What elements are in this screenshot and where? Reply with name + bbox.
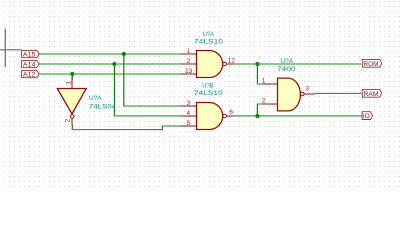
svg-text:1: 1 xyxy=(186,48,190,55)
wire A14 xyxy=(39,63,181,65)
output bubble xyxy=(301,92,305,96)
junction on A14 xyxy=(112,62,116,66)
pin 1 (input, top) xyxy=(71,77,73,89)
svg-text:2: 2 xyxy=(186,58,190,65)
svg-text:5: 5 xyxy=(186,120,190,127)
wire NAND2 output to IO xyxy=(234,115,362,117)
svg-text:13: 13 xyxy=(185,68,193,75)
junction on A15 xyxy=(122,52,126,56)
pin 1 xyxy=(263,83,278,85)
svg-text:2: 2 xyxy=(64,118,71,122)
global label A14 xyxy=(22,60,40,67)
svg-text:A12: A12 xyxy=(23,72,36,79)
wire junction to 7400 pin2 xyxy=(256,104,258,117)
svg-text:U?A: U?A xyxy=(280,58,293,65)
triangle body xyxy=(57,89,86,115)
svg-text:2: 2 xyxy=(262,97,266,104)
svg-text:U?A: U?A xyxy=(89,95,102,102)
output bubble xyxy=(70,115,74,119)
pin 5 xyxy=(181,125,197,127)
svg-text:A15: A15 xyxy=(23,52,36,59)
svg-text:RAM: RAM xyxy=(364,91,379,98)
body xyxy=(278,78,301,111)
junction IO wire xyxy=(255,114,259,118)
svg-text:74LS04: 74LS04 xyxy=(89,104,117,111)
global label RAM xyxy=(362,89,381,97)
pin 2 xyxy=(263,103,278,105)
wire inverter output to pin5 xyxy=(71,124,73,130)
svg-text:1: 1 xyxy=(262,77,266,84)
global label ROM xyxy=(362,59,381,67)
svg-text:74LS10: 74LS10 xyxy=(194,90,223,97)
junction ROM wire xyxy=(255,62,259,66)
wire A15 xyxy=(39,53,181,55)
cursor crosshair xyxy=(0,29,22,68)
svg-text:A14: A14 xyxy=(23,62,36,69)
wire junction to 7400 pin1 xyxy=(256,64,258,85)
svg-text:4: 4 xyxy=(186,110,190,117)
pin 1 xyxy=(181,53,197,55)
pin 3 (output) xyxy=(304,93,315,95)
svg-text:3: 3 xyxy=(186,100,190,107)
wire NAND1 output to ROM xyxy=(234,63,362,65)
wire A12 xyxy=(39,73,181,75)
wire A14 to pin4 xyxy=(113,64,115,117)
svg-text:6: 6 xyxy=(229,109,233,116)
pin 6 (output) xyxy=(226,115,233,117)
pin 3 xyxy=(181,105,197,107)
svg-text:IO: IO xyxy=(363,113,370,120)
svg-text:7400: 7400 xyxy=(277,66,296,73)
svg-text:ROM: ROM xyxy=(364,61,379,68)
svg-text:1: 1 xyxy=(65,81,72,85)
pin 13 xyxy=(181,73,197,75)
pin 12 (output) xyxy=(226,63,233,65)
output bubble xyxy=(223,114,227,118)
global label A15 xyxy=(22,50,40,57)
svg-text:U?B: U?B xyxy=(202,83,213,90)
wire 7400 output to RAM xyxy=(315,92,362,94)
svg-text:12: 12 xyxy=(228,57,236,64)
svg-text:3: 3 xyxy=(305,86,309,93)
output bubble xyxy=(223,62,227,66)
svg-text:74LS10: 74LS10 xyxy=(194,39,223,46)
inverter U?A 74LS04 xyxy=(57,77,116,125)
wire A12 to inverter input xyxy=(71,74,73,80)
junction on A12 xyxy=(70,72,74,76)
svg-text:U?A: U?A xyxy=(203,31,215,38)
global label A12 xyxy=(22,70,40,77)
NAND gate U?B 74LS10 (bottom) xyxy=(181,83,234,130)
wire A15 to pin3 xyxy=(123,54,125,107)
body xyxy=(197,103,223,130)
pin 2 (output, bottom) xyxy=(71,118,73,124)
NAND gate U?A 74LS10 (top) xyxy=(181,31,235,77)
NAND gate U?A 7400 (right) xyxy=(262,58,315,111)
global label IO xyxy=(362,112,373,120)
pin 4 xyxy=(181,115,197,117)
pin 2 xyxy=(181,63,197,65)
body xyxy=(197,51,223,78)
